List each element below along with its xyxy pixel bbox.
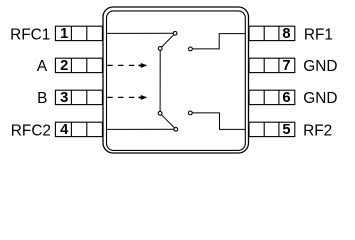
svg-text:GND: GND xyxy=(303,58,337,75)
svg-text:2: 2 xyxy=(60,58,68,74)
pin 5 box xyxy=(249,122,295,136)
control arrow B xyxy=(107,95,147,100)
node contact RF1 side xyxy=(189,47,193,51)
svg-text:1: 1 xyxy=(60,26,68,42)
svg-text:7: 7 xyxy=(282,58,290,74)
pin 3 box xyxy=(55,90,102,104)
svg-text:8: 8 xyxy=(282,26,290,42)
pin 4 box xyxy=(55,122,102,136)
node pole top xyxy=(158,47,162,51)
IC package U1 inner outline xyxy=(107,11,246,151)
pin 8 box xyxy=(249,26,295,40)
wire RFC1 lead xyxy=(107,32,176,34)
svg-text:3: 3 xyxy=(60,90,68,106)
svg-text:6: 6 xyxy=(282,90,290,106)
IC package U1 outer outline xyxy=(103,7,249,153)
control arrow A xyxy=(107,63,147,68)
svg-text:A: A xyxy=(37,58,48,75)
wire RF2 path xyxy=(190,113,245,129)
pin 2 box xyxy=(55,58,102,72)
wire linkage vertical xyxy=(159,49,161,114)
pin 6 box xyxy=(249,90,295,104)
pin 7 box xyxy=(249,58,295,72)
svg-text:RF1: RF1 xyxy=(304,26,333,43)
node contact RFC1 side xyxy=(173,31,177,35)
node contact RF2 side xyxy=(188,111,192,115)
wire switch arm top xyxy=(160,33,175,48)
pin 1 box xyxy=(55,26,102,40)
svg-text:B: B xyxy=(37,90,47,107)
svg-text:5: 5 xyxy=(282,122,290,138)
svg-text:RF2: RF2 xyxy=(303,122,332,139)
svg-text:GND: GND xyxy=(303,90,337,107)
svg-text:4: 4 xyxy=(60,122,69,138)
node pole bottom xyxy=(158,111,162,115)
node contact RFC2 side xyxy=(174,127,178,131)
svg-text:RFC1: RFC1 xyxy=(10,26,50,43)
wire RFC2 lead xyxy=(107,128,176,130)
wire switch arm bottom xyxy=(160,113,176,129)
wire RF1 path xyxy=(190,34,245,49)
svg-text:RFC2: RFC2 xyxy=(11,122,51,139)
